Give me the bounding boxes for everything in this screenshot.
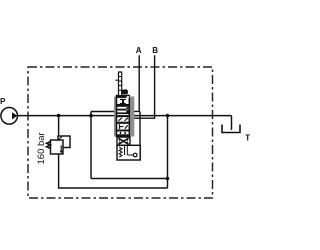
drain gallery	[124, 146, 126, 155]
relief valve arrow	[60, 145, 62, 151]
wire port A	[129, 55, 139, 111]
wire return riser	[167, 116, 169, 188]
enclosure boundary (dash-dot subplate outline)	[28, 67, 213, 198]
wire port A drop to housing	[139, 111, 141, 159]
junction return loop	[166, 177, 170, 181]
spool glyph row4	[119, 124, 121, 129]
svg-text:B: B	[152, 46, 158, 55]
pump flow triangle	[12, 112, 17, 119]
valve section band top	[116, 95, 130, 98]
valve section band 2	[116, 104, 130, 107]
svg-text:160 bar: 160 bar	[36, 132, 47, 164]
bottom section box	[117, 145, 140, 160]
wire relief drain	[59, 154, 168, 188]
valve section band bottom	[116, 134, 130, 136]
relief valve RV1 main square	[51, 140, 64, 154]
junction tank line tee	[166, 114, 170, 118]
valve section band 3 (port zone)	[116, 109, 126, 111]
valve section band 4	[116, 122, 130, 124]
wire tank drop	[231, 116, 233, 130]
wire left riser	[90, 112, 92, 179]
valve body shadow left	[114, 97, 117, 137]
drain plug	[133, 153, 137, 157]
spool glyph row2	[126, 107, 128, 109]
lever blob	[122, 89, 128, 94]
svg-text:A: A	[136, 46, 142, 55]
wire tank return	[129, 115, 231, 117]
check section box with X	[117, 137, 130, 146]
tank T symbol	[222, 125, 240, 133]
junction carryover tee	[89, 114, 93, 118]
svg-text:T: T	[245, 134, 250, 143]
spool glyph row3 arrows	[119, 118, 123, 121]
valve section band 5	[116, 130, 130, 132]
valve body shadow right	[129, 97, 134, 137]
spool glyph row5	[120, 132, 121, 134]
spool glyph row1 (I-beam)	[120, 99, 126, 100]
relief valve pilot connector	[58, 137, 63, 141]
wire carryover upper line	[91, 111, 117, 113]
relief valve spring	[47, 142, 51, 149]
valve body V1	[117, 96, 130, 137]
wire port B	[129, 55, 154, 118]
pump P (flow source circle)	[1, 108, 18, 125]
wire relief inlet	[58, 116, 60, 140]
detent tick	[115, 79, 118, 81]
svg-text:P: P	[0, 97, 6, 106]
junction relief tee	[57, 114, 61, 118]
relief valve pilot square (offset)	[58, 136, 70, 148]
wire return loop upper	[91, 178, 168, 180]
detent stack	[119, 72, 122, 96]
wire P supply	[17, 115, 116, 117]
bottom spring	[119, 147, 122, 157]
